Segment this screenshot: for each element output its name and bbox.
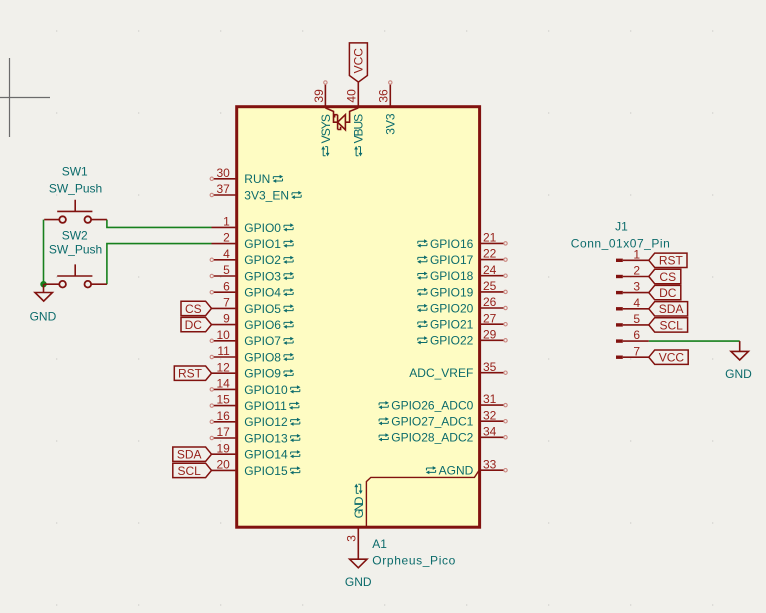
svg-text:Conn_01x07_Pin: Conn_01x07_Pin: [571, 237, 670, 251]
svg-text:GND: GND: [345, 575, 372, 589]
A1 pin 3 (GND): [345, 484, 366, 560]
svg-text:SDA: SDA: [659, 302, 684, 316]
J1 pin 6: [616, 328, 649, 343]
svg-text:40: 40: [345, 89, 359, 103]
svg-text:30: 30: [216, 166, 230, 180]
svg-text:GPIO11: GPIO11: [244, 399, 287, 413]
A1 pin 12 (GPIO9): [212, 360, 294, 380]
svg-text:GPIO3: GPIO3: [244, 269, 281, 283]
svg-text:GPIO0: GPIO0: [244, 221, 281, 235]
A1 pin 7 (GPIO5): [212, 296, 294, 316]
svg-text:4: 4: [223, 247, 230, 261]
A1 pin 34 (GPIO28_ADC2): [378, 424, 507, 444]
svg-text:GPIO12: GPIO12: [244, 415, 288, 429]
svg-text:36: 36: [377, 89, 391, 103]
svg-text:GPIO13: GPIO13: [244, 431, 288, 445]
svg-text:CS: CS: [185, 302, 202, 316]
svg-text:GPIO14: GPIO14: [244, 448, 288, 462]
A1 pin 1 (GPIO0): [212, 215, 294, 235]
svg-text:21: 21: [483, 231, 497, 245]
svg-text:GPIO20: GPIO20: [430, 301, 474, 315]
switch SW2 SW_Push: [44, 228, 107, 287]
J1 pin 3: [616, 280, 649, 295]
A1 pin 16 (GPIO12): [210, 409, 300, 429]
global label VCC (pin 40): [349, 43, 367, 82]
svg-text:6: 6: [223, 279, 230, 293]
A1 pin 36 (3V3): [377, 81, 398, 135]
svg-text:DC: DC: [659, 286, 677, 300]
A1 pin 27 (GPIO21): [417, 311, 507, 331]
global label DC (J1 pin3): [649, 285, 681, 300]
global label SCL (J1 pin5): [649, 318, 688, 333]
svg-text:27: 27: [483, 311, 497, 325]
svg-text:10: 10: [216, 328, 230, 342]
svg-text:VCC: VCC: [659, 351, 685, 365]
svg-text:5: 5: [223, 263, 230, 277]
svg-text:GPIO28_ADC2: GPIO28_ADC2: [391, 431, 473, 445]
svg-text:GND: GND: [30, 309, 57, 323]
svg-text:A1: A1: [372, 537, 387, 551]
svg-text:GPIO5: GPIO5: [244, 302, 281, 316]
svg-text:3V3_EN: 3V3_EN: [244, 188, 289, 202]
wire J1 pin6 to GND: [649, 340, 740, 342]
power symbol GND (A1 pin 3): [345, 559, 372, 589]
svg-text:ADC_VREF: ADC_VREF: [409, 366, 473, 380]
wire SW1 to GPIO0: [107, 220, 212, 228]
svg-text:39: 39: [312, 89, 326, 103]
A1 pin 35 (ADC_VREF): [409, 360, 507, 380]
svg-text:3: 3: [633, 280, 640, 294]
svg-text:5: 5: [633, 312, 640, 326]
A1 pin 11 (GPIO8): [210, 344, 294, 364]
svg-text:29: 29: [483, 327, 497, 341]
svg-text:GPIO1: GPIO1: [244, 237, 281, 251]
A1 pin 29 (GPIO22): [417, 327, 507, 347]
svg-text:GPIO21: GPIO21: [430, 318, 474, 332]
A1 pin 4 (GPIO2): [210, 247, 294, 267]
A1 pin 40 (VBUS): [345, 82, 366, 156]
svg-text:SDA: SDA: [177, 448, 202, 462]
svg-text:SCL: SCL: [178, 464, 202, 478]
global label CS (pin 7): [181, 301, 212, 316]
svg-text:14: 14: [216, 377, 230, 391]
global label SDA (pin 19): [173, 447, 212, 462]
svg-text:GPIO6: GPIO6: [244, 318, 281, 332]
A1 pin 15 (GPIO11): [210, 393, 299, 413]
A1 pin 39 (VSYS): [312, 81, 333, 157]
svg-text:22: 22: [483, 247, 497, 261]
svg-text:2: 2: [633, 264, 640, 278]
A1 pin 10 (GPIO7): [210, 328, 294, 348]
svg-text:SW2: SW2: [62, 228, 88, 242]
svg-text:GPIO17: GPIO17: [430, 253, 474, 267]
svg-text:20: 20: [216, 458, 230, 472]
svg-text:SW1: SW1: [62, 165, 88, 179]
A1 pin 9 (GPIO6): [212, 312, 294, 332]
svg-text:J1: J1: [615, 219, 628, 233]
A1 pin 5 (GPIO3): [210, 263, 294, 283]
A1 pin 32 (GPIO27_ADC1): [378, 408, 507, 428]
svg-text:GPIO19: GPIO19: [430, 285, 474, 299]
svg-text:GPIO2: GPIO2: [244, 253, 281, 267]
A1 pin 26 (GPIO20): [417, 295, 507, 315]
svg-text:1: 1: [223, 215, 230, 229]
svg-text:GPIO10: GPIO10: [244, 383, 288, 397]
svg-text:7: 7: [223, 296, 230, 310]
A1 pin 14 (GPIO10): [210, 377, 300, 397]
svg-text:1: 1: [633, 247, 640, 261]
IC A1 Orpheus_Pico body: [237, 107, 480, 528]
svg-text:GPIO4: GPIO4: [244, 286, 281, 300]
svg-text:12: 12: [216, 360, 230, 374]
svg-text:15: 15: [216, 393, 230, 407]
global label SDA (J1 pin4): [649, 302, 688, 317]
svg-text:AGND: AGND: [439, 464, 474, 478]
svg-text:7: 7: [633, 344, 640, 358]
svg-text:RUN: RUN: [244, 172, 270, 186]
A1 pin 30 (RUN): [210, 166, 283, 186]
internal diode VBUS-VSYS: [325, 108, 358, 130]
A1 reference / value fields: [372, 537, 455, 568]
svg-text:16: 16: [216, 409, 230, 423]
global label CS (J1 pin2): [649, 269, 681, 284]
J1 pin 2: [616, 264, 649, 279]
A1 pin 17 (GPIO13): [210, 425, 300, 445]
svg-text:33: 33: [483, 457, 497, 471]
wire SW1 left to SW2 left: [43, 220, 45, 285]
svg-text:RST: RST: [178, 367, 203, 381]
global label RST (J1 pin1): [649, 253, 687, 268]
svg-text:VBUS: VBUS: [352, 114, 366, 144]
junction SW2 left / GND: [40, 281, 46, 287]
svg-text:CS: CS: [659, 270, 676, 284]
global label RST (pin 12): [174, 366, 211, 381]
A1 pin 20 (GPIO15): [212, 458, 301, 478]
A1 pin 22 (GPIO17): [417, 247, 507, 267]
svg-text:3: 3: [345, 535, 359, 542]
svg-text:4: 4: [633, 296, 640, 310]
svg-text:26: 26: [483, 295, 497, 309]
svg-text:GPIO9: GPIO9: [244, 367, 281, 381]
svg-text:SW_Push: SW_Push: [49, 182, 102, 196]
svg-text:35: 35: [483, 360, 497, 374]
A1 pin 24 (GPIO18): [417, 263, 507, 283]
A1 pin 21 (GPIO16): [417, 231, 507, 251]
svg-text:GPIO22: GPIO22: [430, 334, 474, 348]
svg-text:GPIO26_ADC0: GPIO26_ADC0: [391, 398, 473, 412]
wire SW2 to GPIO1: [107, 244, 212, 285]
A1 pin 2 (GPIO1): [212, 231, 294, 251]
A1 pin 33 (AGND): [426, 457, 507, 477]
svg-text:6: 6: [633, 328, 640, 342]
svg-text:GPIO18: GPIO18: [430, 269, 474, 283]
svg-text:9: 9: [223, 312, 230, 326]
svg-text:GND: GND: [352, 496, 366, 518]
global label SCL (pin 20): [173, 463, 212, 478]
A1 pin 37 (3V3_EN): [210, 182, 302, 202]
svg-text:37: 37: [216, 182, 230, 196]
svg-text:19: 19: [216, 441, 230, 455]
A1 pin 31 (GPIO26_ADC0): [378, 392, 507, 412]
svg-text:GPIO15: GPIO15: [244, 464, 288, 478]
svg-text:VCC: VCC: [351, 48, 365, 74]
svg-text:24: 24: [483, 263, 497, 277]
svg-text:Orpheus_Pico: Orpheus_Pico: [372, 554, 455, 568]
J1 pin 1: [616, 247, 649, 262]
svg-text:GPIO16: GPIO16: [430, 237, 474, 251]
A1 pin 6 (GPIO4): [210, 279, 294, 299]
svg-text:31: 31: [483, 392, 497, 406]
svg-text:GPIO7: GPIO7: [244, 334, 281, 348]
svg-text:32: 32: [483, 408, 497, 422]
connector J1 fields: [571, 219, 670, 250]
svg-text:GPIO27_ADC1: GPIO27_ADC1: [391, 415, 473, 429]
svg-text:34: 34: [483, 424, 497, 438]
svg-text:GPIO8: GPIO8: [244, 350, 281, 364]
power symbol GND (J1 pin 6): [725, 341, 752, 381]
global label DC (pin 9): [181, 317, 212, 332]
J1 pin 4: [616, 296, 649, 311]
J1 pin 7: [616, 344, 649, 359]
global label VCC (J1 pin7): [649, 350, 688, 365]
svg-text:RST: RST: [659, 254, 684, 268]
sheet origin crosshair: [0, 58, 50, 137]
svg-text:25: 25: [483, 279, 497, 293]
svg-text:11: 11: [217, 344, 230, 358]
svg-text:GND: GND: [725, 367, 752, 381]
svg-text:2: 2: [223, 231, 230, 245]
A1 pin 25 (GPIO19): [417, 279, 507, 299]
svg-text:DC: DC: [185, 318, 203, 332]
svg-text:SCL: SCL: [659, 318, 683, 332]
svg-text:17: 17: [216, 425, 230, 439]
power symbol GND (switches): [30, 284, 57, 323]
svg-text:VSYS: VSYS: [319, 114, 333, 143]
A1 pin 19 (GPIO14): [212, 441, 301, 461]
svg-text:SW_Push: SW_Push: [49, 243, 102, 257]
switch SW1 SW_Push: [44, 165, 107, 223]
J1 pin 5: [616, 312, 649, 327]
svg-text:3V3: 3V3: [384, 113, 398, 135]
